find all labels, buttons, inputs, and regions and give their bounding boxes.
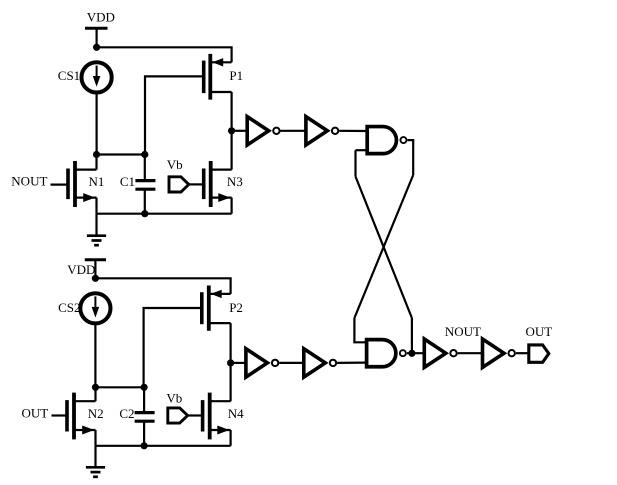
inverter U3 <box>246 349 278 377</box>
wire node B to inverter U1 <box>232 130 248 132</box>
svg-text:Vb: Vb <box>166 391 182 406</box>
svg-text:P2: P2 <box>229 300 243 315</box>
wire VDD node to P1 source <box>97 47 232 62</box>
svg-text:VDD: VDD <box>67 262 95 277</box>
NAND gate G1 <box>367 127 406 154</box>
inverter U1 <box>247 117 279 145</box>
junction C1 bottom on rail <box>141 210 148 217</box>
junction node C at C2 <box>141 384 148 391</box>
wire N2 drain up to node C <box>94 387 96 401</box>
wire node A to C1 top plate <box>144 155 146 181</box>
wire G1 input 2 stub <box>356 149 367 151</box>
ground rail (bottom) <box>96 445 231 447</box>
junction node A at C1 <box>141 151 148 158</box>
port Vb (top bias input) <box>169 177 189 192</box>
wire latch right vertical down to G2 output node <box>411 318 413 353</box>
svg-text:C1: C1 <box>120 174 135 189</box>
wire latch diagonal A (G2 out to G1 in2) <box>356 177 412 319</box>
svg-text:N2: N2 <box>88 406 104 421</box>
inverter U4 <box>304 349 336 377</box>
svg-text:C2: C2 <box>119 406 134 421</box>
junction VDD node (bottom) <box>92 275 99 282</box>
wire node C to C2 top plate <box>143 387 145 412</box>
transistor P1 <box>204 54 232 100</box>
wire U4 to NAND G2 input 2 <box>337 362 365 364</box>
wire U6 to OUT port <box>516 352 529 354</box>
svg-text:Vb: Vb <box>167 157 183 172</box>
capacitor C1 <box>135 181 155 190</box>
capacitor C2 <box>135 413 155 422</box>
power rail VDD (bottom) <box>67 260 106 277</box>
wire rail to ground symbol <box>95 214 97 236</box>
current source CS1 <box>82 62 112 92</box>
svg-text:CS1: CS1 <box>58 68 80 83</box>
current source CS2 <box>80 293 110 323</box>
wire C2 bottom plate to rail <box>143 421 145 446</box>
wire VDD bar to node dot <box>95 28 97 47</box>
inverter U2 <box>306 117 338 145</box>
svg-text:NOUT: NOUT <box>11 174 47 189</box>
ground rail (top) <box>97 213 232 215</box>
wire C1 bottom plate to rail <box>144 189 146 214</box>
wire P2 drain / N4 drain vertical to node D <box>230 323 232 401</box>
wire N3 source to rail <box>231 198 233 214</box>
wire N4 source to rail <box>230 430 232 446</box>
svg-text:OUT: OUT <box>526 324 553 339</box>
svg-text:CS2: CS2 <box>58 300 80 315</box>
ground (top) <box>87 236 106 246</box>
svg-text:N3: N3 <box>227 174 243 189</box>
wire node A to P1 gate <box>145 76 204 154</box>
wire latch left vertical down to G2 input 1 <box>354 318 366 342</box>
wire U1 to U2 <box>281 130 306 132</box>
wire latch diagonal B (G1 out to G2 in1) <box>354 175 413 318</box>
wire U5 to U6 <box>458 352 483 354</box>
wire OUT to N2 gate <box>52 414 68 416</box>
inverter U5 <box>424 339 456 367</box>
port OUT (output) <box>529 345 549 362</box>
wire G1 input 2 to latch cross (left vertical, top) <box>354 150 356 176</box>
junction VDD node (top) <box>93 44 100 51</box>
wire NOUT to N1 gate <box>51 184 69 186</box>
junction node B <box>228 127 235 134</box>
junction C2 bottom on rail <box>141 442 148 449</box>
node A wire (N1 drain / C1 top) <box>97 153 145 155</box>
svg-text:OUT: OUT <box>22 406 49 421</box>
wire N1 drain up to node A <box>95 155 97 170</box>
transistor N2 <box>67 393 96 440</box>
svg-text:NOUT: NOUT <box>445 324 481 339</box>
wire N2 source to ground rail <box>94 430 96 446</box>
wire G2 output to node E <box>407 352 424 354</box>
svg-text:N4: N4 <box>228 406 244 421</box>
wire VDD bar to node dot (bottom) <box>94 260 96 279</box>
junction node E (G2 output) <box>408 350 415 357</box>
node C wire (N2 drain / C2 top) <box>96 386 145 388</box>
wire CS2 to node C <box>94 323 96 387</box>
wire U2 to NAND G1 input 1 <box>339 130 366 132</box>
junction node A left <box>93 151 100 158</box>
wire rail to ground symbol (bottom) <box>94 446 96 468</box>
junction node D <box>227 359 234 366</box>
NAND gate G2 <box>367 340 406 367</box>
svg-text:VDD: VDD <box>87 9 115 24</box>
wire N1 source to ground rail <box>95 198 97 214</box>
wire G1 output <box>408 140 414 175</box>
wire Vb port to N4 gate <box>188 414 203 416</box>
port Vb (bottom bias input) <box>168 408 188 423</box>
power rail VDD (top) <box>85 9 115 28</box>
ground (bottom) <box>86 467 105 477</box>
junction node C left <box>92 384 99 391</box>
transistor N3 <box>204 161 232 207</box>
transistor P2 <box>202 286 231 331</box>
transistor N4 <box>203 393 231 440</box>
inverter U6 <box>483 339 515 367</box>
transistor N1 <box>68 161 97 207</box>
wire node D to inverter U3 <box>231 362 246 364</box>
wire U3 to U4 <box>279 362 304 364</box>
svg-text:P1: P1 <box>229 68 243 83</box>
wire P1 drain / N3 drain vertical to node B <box>231 92 233 170</box>
wire CS1 to node A <box>95 92 97 154</box>
wire VDD node to P2 source <box>95 278 230 294</box>
wire node C to P2 gate <box>144 308 202 387</box>
svg-text:N1: N1 <box>89 174 105 189</box>
wire Vb port to N3 gate <box>189 183 204 185</box>
